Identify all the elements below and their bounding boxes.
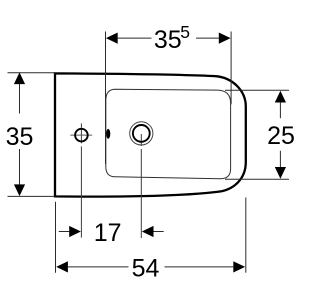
dim 17 arrow right (142, 226, 154, 237)
drain outer circle (130, 122, 153, 145)
drain inner circle (133, 125, 150, 142)
dim 35.5 arrow left (106, 33, 118, 44)
svg-text:25: 25 (267, 122, 295, 150)
dim 25 extension line bottom (225, 178, 289, 180)
dim 54 extension line right (245, 198, 247, 273)
tap hole centerline horizontal (70, 134, 92, 136)
dim 25 arrow down (275, 167, 286, 179)
tap hole centerline vertical (80, 123, 82, 237)
overflow hole (106, 129, 110, 139)
drain centerline vertical (140, 134, 142, 238)
dim 25 extension line top (225, 89, 289, 91)
tap hole circle (75, 129, 88, 142)
basin inner outline (106, 89, 231, 178)
dim 35 line (19, 84, 21, 184)
svg-text:5: 5 (180, 22, 190, 42)
dim 54 arrow right (233, 261, 245, 272)
dim 35.5 extension line right (230, 32, 232, 105)
dim 35 extension line bottom (8, 195, 55, 197)
dim 35 extension line top (8, 72, 56, 74)
dim 35.5 arrow right (219, 33, 231, 44)
dim 54 arrow left (56, 261, 68, 272)
svg-text:35: 35 (6, 123, 34, 151)
dim 35.5 line (118, 37, 219, 39)
svg-text:54: 54 (132, 255, 160, 283)
dim 54 line (68, 266, 233, 268)
dim 35 arrow down (14, 184, 25, 196)
dim 17 line left leader (59, 231, 70, 233)
svg-text:35: 35 (154, 26, 182, 54)
dim 25 arrow up (275, 91, 286, 103)
fixture outer outline (55, 73, 246, 196)
dim 17 line right leader (154, 231, 164, 233)
dim 17 arrow left (69, 226, 81, 237)
dim 54 extension line left (55, 202, 57, 273)
dim 25 line (279, 102, 281, 167)
svg-text:17: 17 (94, 219, 122, 247)
dim 35.5 extension line left (105, 32, 107, 165)
dim 35 arrow up (14, 72, 25, 84)
